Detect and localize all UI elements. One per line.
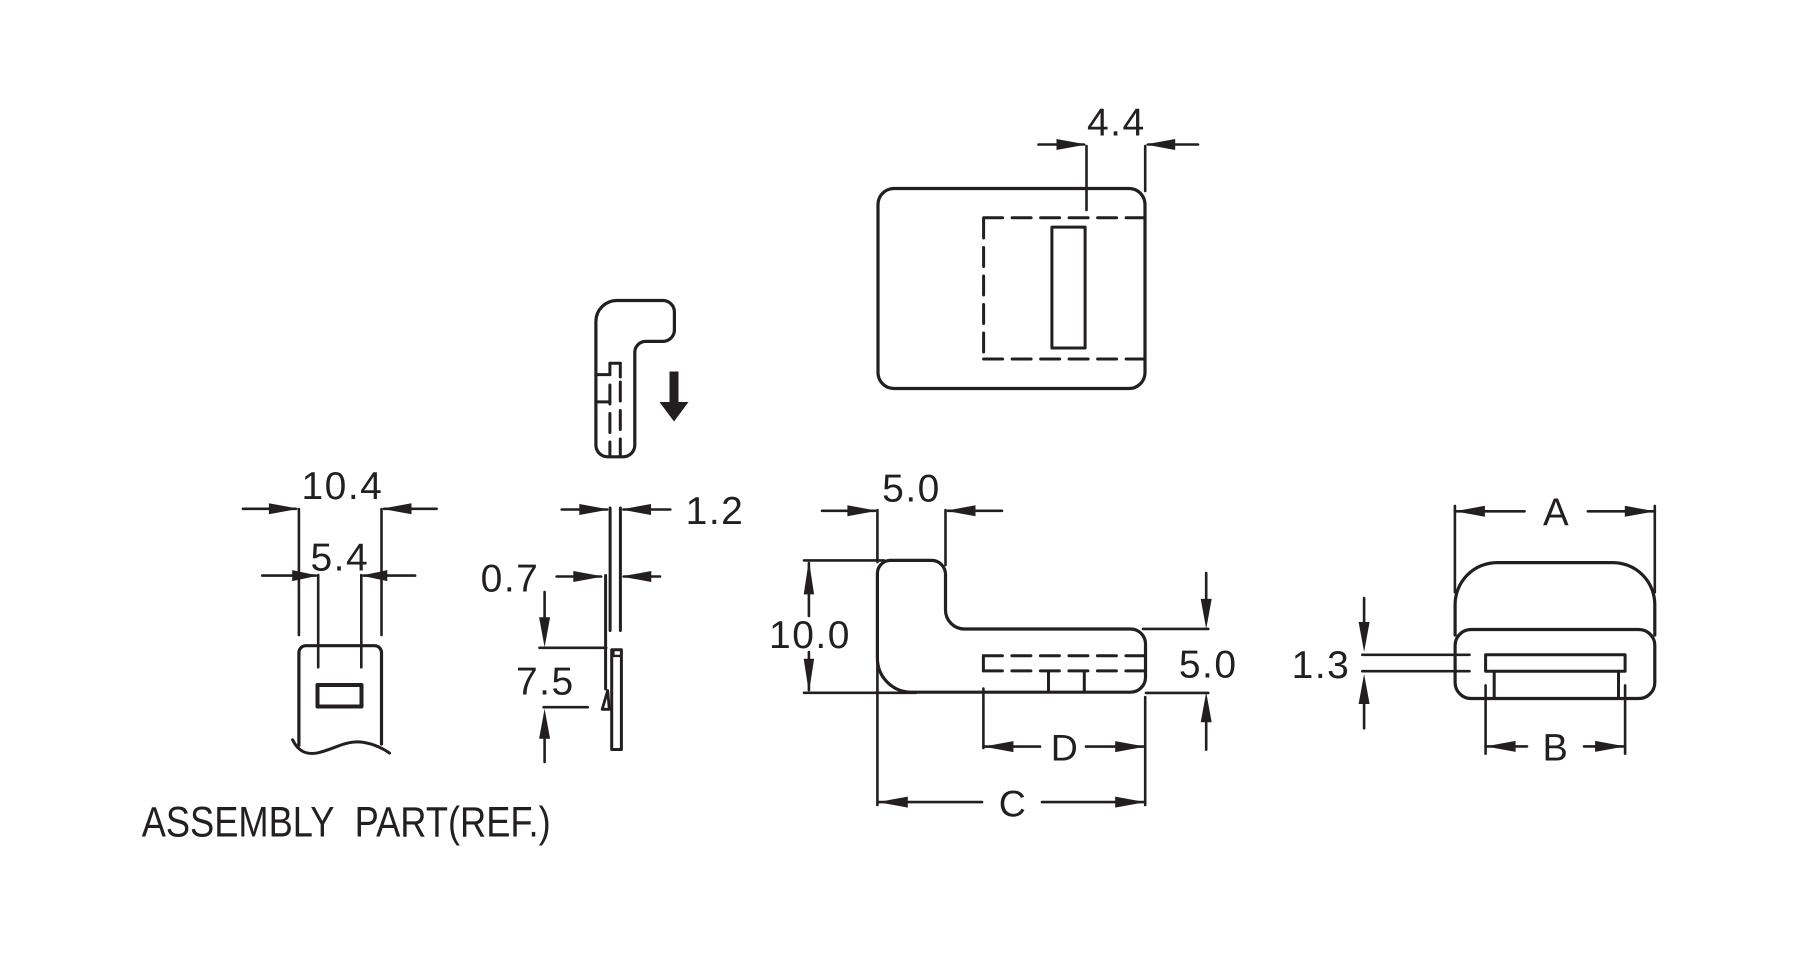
L part slot bottom opening left line: [1047, 672, 1050, 691]
thin side view left edge line: [609, 508, 612, 631]
thin blade rear line: [604, 576, 607, 690]
assembly part outline: [299, 646, 382, 746]
hook hidden dashed line left: [608, 385, 611, 455]
hook step line lower: [596, 400, 610, 403]
dim 5.0 right up arrow: [1205, 722, 1208, 750]
L part outline: [877, 560, 1145, 692]
dim 1.3 down arrow: [1363, 598, 1366, 624]
svg-text:10.4: 10.4: [301, 465, 383, 508]
dim A dimension line left segment: [1455, 510, 1525, 513]
dim B right arrow: [1595, 741, 1625, 752]
insertion arrow: [670, 372, 679, 404]
dim B left arrow: [1486, 741, 1516, 752]
dim 10.4 left extension line: [298, 509, 301, 635]
dim A left extension line: [1454, 506, 1457, 592]
dim B dimension line right segment: [1584, 745, 1625, 748]
thin blade notch vertical: [612, 650, 614, 656]
front view step left line: [1493, 671, 1496, 697]
dim 10.0 dimension line upper segment: [808, 563, 811, 616]
dim A dimension line right segment: [1588, 510, 1655, 513]
thin blade notch horizontal: [613, 655, 620, 657]
dim C dimension line right segment: [1042, 801, 1145, 804]
dim B right extension line: [1624, 685, 1627, 753]
hook notch left line: [608, 363, 611, 374]
dim 4.4 left extension line: [1085, 146, 1088, 210]
dim 5.0 top right arrow: [948, 509, 1002, 512]
L part hidden slot top dashed line: [983, 654, 1144, 657]
dim D left arrow: [983, 741, 1013, 752]
dim C left extension line: [876, 663, 879, 805]
dim 4.4 right arrow: [1148, 143, 1198, 146]
L part slot bottom opening right line: [1083, 672, 1086, 691]
svg-text:1.2: 1.2: [686, 490, 745, 533]
dim 5.0 right lower extension line: [1146, 692, 1208, 695]
dim 7.5 top reference line: [540, 646, 607, 649]
dim A right extension line: [1654, 506, 1657, 592]
dim 10.0 bottom extension line: [804, 691, 916, 694]
dim 1.3 top leader line: [1362, 653, 1469, 656]
thin blade barb: [602, 691, 609, 710]
dim A left arrow: [1455, 506, 1485, 517]
dim C left arrow: [878, 797, 908, 808]
dim 10.0 down arrow: [804, 659, 814, 693]
dim 10.0 dimension line lower segment: [808, 652, 811, 690]
hook side view outline: [596, 301, 675, 457]
thin side view right edge line: [619, 508, 622, 631]
top view hidden slot top dashed line: [984, 216, 1144, 219]
assembly part slot edge line left: [317, 575, 320, 667]
top view body: [878, 189, 1145, 389]
dim 4.4 left arrow: [1039, 143, 1085, 146]
dim 1.2 left arrow: [562, 508, 607, 511]
hook notch top line: [610, 362, 620, 365]
thin blade front rectangle: [612, 650, 622, 750]
dim 5.4 right arrow: [364, 574, 415, 577]
svg-text:5.0: 5.0: [882, 467, 941, 510]
dim 1.3 bottom leader line: [1362, 670, 1469, 673]
front view lower body: [1455, 630, 1655, 699]
dim 10.0 up arrow: [804, 560, 814, 594]
svg-text:D: D: [1051, 726, 1078, 768]
front view slot rectangle: [1486, 655, 1626, 671]
assembly part slot edge line right: [360, 575, 363, 667]
svg-text:10.0: 10.0: [769, 614, 851, 657]
dim 7.5 bottom arrow: [543, 737, 546, 762]
svg-text:A: A: [1543, 492, 1569, 535]
dim 7.5 bottom reference line: [544, 706, 588, 709]
svg-text:ASSEMBLY PART(REF.): ASSEMBLY PART(REF.): [142, 800, 551, 847]
top view hidden slot bottom dashed line: [984, 358, 1144, 361]
dim D left extension line: [982, 689, 985, 748]
hook hidden dashed line right: [619, 382, 622, 455]
dim D right extension line: [1144, 697, 1147, 805]
svg-text:0.7: 0.7: [481, 558, 540, 601]
dim 5.0 top left arrow: [822, 509, 875, 512]
svg-text:7.5: 7.5: [516, 661, 575, 704]
svg-text:4.4: 4.4: [1087, 102, 1146, 145]
svg-text:5.0: 5.0: [1179, 644, 1238, 687]
hook step line upper: [596, 373, 610, 376]
front view step right line: [1617, 671, 1620, 697]
dim 5.0 right down arrow: [1205, 573, 1208, 600]
dim D right arrow: [1115, 741, 1145, 752]
dim 1.2 right arrow: [624, 508, 671, 511]
dim C dimension line left segment: [878, 801, 982, 804]
dim 5.0 top left extension line: [876, 510, 879, 562]
L part slot left end line: [982, 656, 985, 671]
dim B left extension line: [1484, 685, 1487, 753]
svg-text:5.4: 5.4: [310, 536, 369, 579]
dim 5.4 left arrow: [262, 574, 315, 577]
dim D dimension line right segment: [1086, 745, 1145, 748]
dim 1.3 up arrow: [1363, 703, 1366, 728]
dim 0.7 right arrow: [624, 575, 660, 578]
dim 10.4 right extension line: [380, 509, 383, 635]
dim A right arrow: [1625, 506, 1655, 517]
dim 10.0 top extension line: [804, 559, 884, 562]
top view slot rectangle: [1052, 227, 1085, 348]
dim 10.4 right arrow: [384, 507, 437, 510]
dim 5.0 top right extension line: [944, 510, 947, 565]
L part hidden slot bottom dashed line: [983, 669, 1144, 672]
dim B dimension line left segment: [1486, 745, 1527, 748]
dim 10.4 left arrow: [243, 507, 296, 510]
dim 7.5 top arrow: [543, 592, 546, 618]
dim C right arrow: [1115, 797, 1145, 808]
dim D dimension line left segment: [983, 745, 1040, 748]
dim 4.4 right extension line: [1144, 146, 1147, 191]
top view hidden slot left dashed line: [982, 219, 985, 359]
assembly part slot rectangle: [318, 685, 362, 707]
svg-text:1.3: 1.3: [1292, 644, 1351, 687]
hook hidden line right solid start: [619, 363, 622, 377]
dim 0.7 left arrow: [557, 575, 601, 578]
assembly part break wavy line: [293, 740, 390, 754]
front view upper body: [1455, 563, 1655, 635]
svg-text:C: C: [999, 783, 1026, 825]
svg-text:B: B: [1543, 728, 1568, 770]
dim 5.0 right upper extension line: [1143, 628, 1208, 631]
